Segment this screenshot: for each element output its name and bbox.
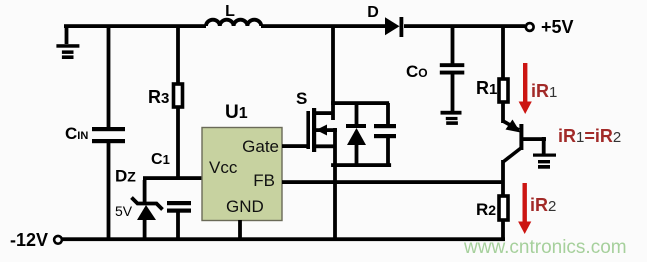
wire top rail left segment	[64, 24, 206, 28]
ground top-left	[56, 26, 79, 59]
wire snubber top line	[331, 101, 389, 105]
wire collector to R2	[501, 160, 505, 196]
wire snubber to bottom rail	[333, 165, 337, 241]
parasitic capacitor of S	[374, 103, 396, 165]
ground base	[533, 154, 556, 169]
mosfet drain stub	[314, 111, 333, 115]
svg-text:GND: GND	[226, 197, 264, 216]
current arrow iR2	[518, 183, 531, 234]
capacitor C1	[167, 201, 191, 213]
svg-text:+5V: +5V	[541, 17, 574, 37]
wire R1 bottom	[501, 102, 505, 123]
wire R2 bottom	[501, 220, 505, 241]
svg-text:U1: U1	[225, 102, 248, 123]
wire drain vertical to rail	[331, 26, 335, 120]
wire GND pin	[238, 220, 242, 241]
mosfet S channel bar	[312, 108, 316, 152]
capacitor CO	[440, 63, 465, 74]
svg-text:DZ: DZ	[115, 167, 136, 186]
body diode of S	[346, 103, 366, 165]
wire C1 bottom	[176, 211, 180, 241]
mosfet source stub	[314, 144, 335, 148]
wire top rail middle segment	[261, 24, 385, 28]
wire Gate pin	[282, 144, 308, 148]
IC U1	[202, 128, 282, 221]
wire Vcc node horizontal	[143, 176, 202, 180]
diode D	[385, 17, 403, 37]
wire CIN top	[107, 26, 111, 127]
svg-text:Vcc: Vcc	[209, 158, 238, 177]
svg-text:D: D	[367, 4, 379, 21]
transistor Q emitter diagonal with arrow	[503, 120, 521, 133]
wire R3 to Vcc node	[176, 107, 180, 180]
ground CO	[441, 111, 462, 125]
terminal -12V	[54, 236, 62, 244]
transistor Q bar	[519, 124, 523, 150]
wire R1 top	[501, 26, 505, 79]
mosfet S gate bar	[306, 111, 310, 149]
transistor base wire	[523, 137, 546, 154]
resistor R2	[499, 196, 508, 220]
svg-text:L: L	[225, 3, 235, 20]
wire R3 top	[176, 26, 180, 84]
svg-text:iR1: iR1	[531, 81, 557, 101]
svg-text:S: S	[296, 89, 307, 108]
svg-text:C1: C1	[151, 151, 170, 168]
inductor L	[206, 20, 261, 26]
current arrow iR1	[519, 63, 532, 114]
wire CO vertical	[451, 26, 455, 64]
wire top rail right segment	[404, 24, 525, 28]
wire source/body vertical	[333, 128, 337, 167]
svg-text:Gate: Gate	[242, 137, 279, 156]
transistor collector diagonal	[503, 148, 521, 162]
wire FB line	[282, 180, 503, 184]
svg-text:FB: FB	[253, 171, 275, 190]
zener diode DZ	[132, 180, 163, 241]
wire bottom rail	[63, 237, 506, 241]
resistor R1	[499, 79, 508, 102]
svg-text:-12V: -12V	[10, 230, 48, 250]
svg-text:R3: R3	[148, 87, 169, 107]
wire snubber bottom line	[331, 163, 391, 167]
svg-text:iR2: iR2	[530, 195, 556, 215]
svg-text:www.cntronics.com: www.cntronics.com	[463, 237, 627, 258]
svg-text:iR1=iR2: iR1=iR2	[558, 126, 621, 146]
wire CO to ground	[451, 74, 455, 112]
capacitor CIN	[92, 127, 125, 143]
svg-text:5V: 5V	[115, 203, 133, 219]
terminal +5V	[526, 23, 534, 31]
wire CIN bottom	[107, 143, 111, 241]
resistor R3	[174, 84, 183, 107]
svg-text:R1: R1	[476, 78, 497, 98]
svg-text:R2: R2	[476, 200, 496, 219]
mosfet body stub with arrow	[316, 125, 337, 136]
